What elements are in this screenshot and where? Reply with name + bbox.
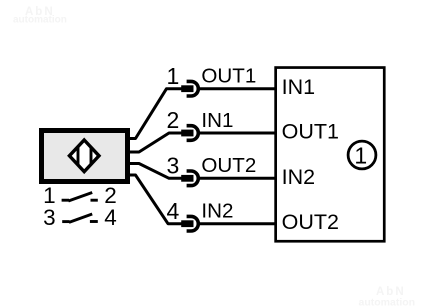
svg-text:3: 3: [167, 152, 180, 178]
svg-text:4: 4: [167, 198, 180, 224]
svg-text:2: 2: [167, 107, 180, 133]
svg-text:3: 3: [43, 205, 56, 230]
svg-text:1: 1: [167, 63, 180, 89]
svg-text:IN2: IN2: [282, 165, 315, 189]
svg-text:automation: automation: [13, 15, 67, 26]
svg-text:OUT1: OUT1: [282, 120, 339, 144]
svg-text:OUT1: OUT1: [201, 65, 256, 88]
svg-text:OUT2: OUT2: [282, 210, 339, 234]
svg-text:1: 1: [354, 143, 367, 169]
svg-text:4: 4: [104, 205, 117, 230]
svg-text:OUT2: OUT2: [201, 154, 256, 177]
svg-text:IN1: IN1: [201, 109, 233, 132]
svg-text:IN1: IN1: [282, 75, 315, 99]
svg-text:automation: automation: [359, 297, 416, 307]
svg-text:IN2: IN2: [201, 200, 233, 223]
